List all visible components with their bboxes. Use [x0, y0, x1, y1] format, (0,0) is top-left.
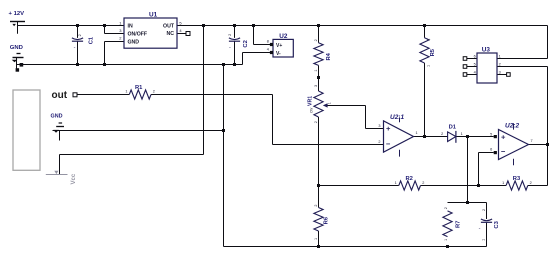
svg-text:-: - — [74, 44, 76, 50]
svg-text:7: 7 — [531, 139, 533, 143]
svg-text:2: 2 — [530, 181, 532, 185]
svg-text:1: 1 — [327, 102, 331, 104]
svg-text:1: 1 — [502, 181, 504, 185]
svg-text:2: 2 — [441, 132, 443, 136]
svg-text:1: 1 — [481, 239, 485, 241]
svg-text:OUT: OUT — [163, 23, 175, 29]
svg-text:GND: GND — [128, 39, 140, 45]
svg-text:GND: GND — [10, 45, 23, 51]
svg-text:+ 12V: + 12V — [9, 11, 25, 17]
svg-text:5: 5 — [474, 63, 476, 67]
svg-text:out: out — [52, 90, 68, 101]
svg-text:U1: U1 — [149, 11, 158, 18]
svg-text:2: 2 — [314, 121, 318, 123]
svg-text:3: 3 — [499, 71, 501, 75]
svg-text:2: 2 — [422, 181, 424, 185]
svg-text:V-: V- — [276, 51, 281, 57]
svg-text:6: 6 — [474, 55, 476, 59]
svg-text:C2: C2 — [243, 40, 249, 47]
svg-text:ON/OFF: ON/OFF — [128, 31, 148, 37]
svg-text:U2:1: U2:1 — [390, 114, 404, 121]
svg-text:2: 2 — [78, 34, 82, 36]
svg-text:R5: R5 — [430, 48, 436, 56]
svg-text:1: 1 — [444, 239, 448, 241]
svg-text:C3: C3 — [494, 220, 500, 228]
svg-text:VR1: VR1 — [307, 96, 313, 106]
svg-text:2: 2 — [314, 204, 318, 206]
svg-text:R1: R1 — [135, 85, 143, 91]
svg-text:2: 2 — [153, 90, 155, 94]
svg-text:2: 2 — [499, 63, 501, 67]
svg-text:U3: U3 — [482, 46, 491, 53]
svg-text:C1: C1 — [89, 36, 95, 44]
svg-text:V+: V+ — [276, 43, 282, 49]
svg-text:Vcc: Vcc — [71, 173, 77, 184]
svg-text:U2: U2 — [279, 33, 288, 40]
svg-text:1: 1 — [314, 238, 318, 240]
svg-text:2: 2 — [427, 38, 431, 40]
svg-text:R4: R4 — [326, 52, 332, 60]
svg-text:1: 1 — [461, 132, 463, 136]
svg-text:IN: IN — [128, 23, 133, 29]
svg-text:6: 6 — [490, 147, 492, 151]
svg-text:NC: NC — [167, 31, 175, 37]
svg-text:1: 1 — [395, 181, 397, 185]
svg-text:1: 1 — [416, 131, 418, 135]
svg-text:-: - — [229, 44, 231, 50]
svg-text:−: − — [501, 147, 506, 156]
svg-text:CW: CW — [310, 108, 314, 113]
svg-text:R6: R6 — [324, 216, 330, 224]
svg-text:3: 3 — [314, 85, 318, 87]
svg-text:D1: D1 — [449, 125, 457, 131]
svg-text:4: 4 — [267, 47, 269, 51]
svg-text:1: 1 — [125, 90, 127, 94]
svg-text:4: 4 — [474, 71, 476, 75]
svg-text:GND: GND — [51, 113, 63, 119]
svg-text:2: 2 — [444, 207, 448, 209]
svg-text:2: 2 — [228, 34, 232, 36]
svg-text:1: 1 — [314, 69, 318, 71]
svg-text:U2:2: U2:2 — [505, 123, 519, 130]
svg-text:-: - — [479, 226, 481, 232]
svg-text:1: 1 — [427, 65, 431, 67]
svg-text:3: 3 — [378, 124, 380, 128]
svg-text:R2: R2 — [406, 176, 413, 182]
svg-text:+: + — [386, 124, 391, 133]
svg-text:R7: R7 — [455, 221, 461, 228]
svg-text:−: − — [386, 140, 391, 149]
svg-text:8: 8 — [267, 39, 269, 43]
svg-text:5: 5 — [490, 133, 492, 137]
svg-text:2: 2 — [482, 209, 486, 211]
svg-text:+: + — [501, 133, 506, 142]
svg-text:2: 2 — [314, 39, 318, 41]
svg-text:R3: R3 — [513, 176, 521, 182]
svg-text:2: 2 — [378, 140, 380, 144]
svg-text:1: 1 — [499, 55, 501, 59]
